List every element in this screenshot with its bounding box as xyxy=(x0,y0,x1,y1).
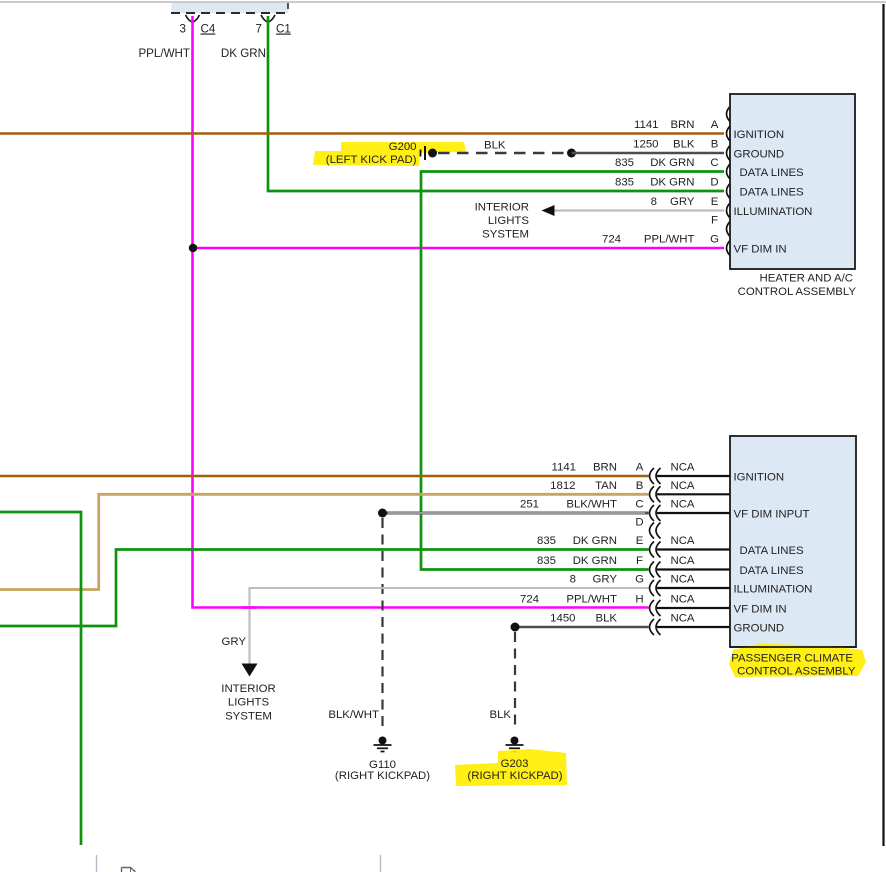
svg-text:DATA LINES: DATA LINES xyxy=(740,187,805,199)
svg-text:C: C xyxy=(710,157,718,169)
svg-text:(RIGHT KICKPAD): (RIGHT KICKPAD) xyxy=(467,770,562,782)
svg-text:VF DIM IN: VF DIM IN xyxy=(734,244,787,256)
svg-text:DK GRN: DK GRN xyxy=(650,177,694,189)
svg-text:BLK: BLK xyxy=(673,139,695,151)
svg-text:IGNITION: IGNITION xyxy=(734,472,785,484)
wire 835 DK GRN entering left and exiting bottom xyxy=(0,512,81,845)
bottom panel document icon (cut off) xyxy=(122,868,136,872)
svg-text:BRN: BRN xyxy=(593,462,617,474)
svg-text:BLK: BLK xyxy=(484,140,506,152)
svg-text:LIGHTS: LIGHTS xyxy=(228,697,270,709)
svg-text:1141: 1141 xyxy=(634,119,659,131)
wire 1141 BRN to heater pin A xyxy=(0,132,724,135)
svg-text:835: 835 xyxy=(615,177,634,189)
svg-text:7: 7 xyxy=(256,23,262,36)
svg-text:A: A xyxy=(636,462,644,474)
svg-text:PASSENGER CLIMATE: PASSENGER CLIMATE xyxy=(731,653,853,665)
svg-text:NCA: NCA xyxy=(670,499,694,511)
svg-text:724: 724 xyxy=(520,594,539,606)
svg-text:NCA: NCA xyxy=(670,574,694,586)
svg-text:NCA: NCA xyxy=(670,594,694,606)
svg-text:BLK/WHT: BLK/WHT xyxy=(328,709,379,721)
bottom panel cell divider right xyxy=(380,855,382,872)
wire 1812 TAN to passenger pin B xyxy=(0,494,649,589)
svg-text:PPL/WHT: PPL/WHT xyxy=(644,234,695,246)
svg-text:(LEFT KICK PAD): (LEFT KICK PAD) xyxy=(326,154,417,166)
svg-text:H: H xyxy=(635,594,643,606)
wire 1250 BLK to heater pin B xyxy=(572,152,725,155)
svg-text:DATA LINES: DATA LINES xyxy=(740,545,805,557)
svg-text:IGNITION: IGNITION xyxy=(734,129,785,141)
svg-text:1250: 1250 xyxy=(633,139,658,151)
svg-text:724: 724 xyxy=(602,234,621,246)
svg-text:PPL/WHT: PPL/WHT xyxy=(566,594,617,606)
arrow to interior lights system (left) xyxy=(542,205,555,216)
svg-text:GRY: GRY xyxy=(222,636,247,648)
svg-text:CONTROL ASSEMBLY: CONTROL ASSEMBLY xyxy=(738,286,857,298)
bottom panel cell divider left xyxy=(96,855,98,872)
pin terminal 3 (C4) xyxy=(186,15,200,22)
wire BLK dashed down to G203 xyxy=(514,632,516,729)
svg-text:INTERIOR: INTERIOR xyxy=(221,683,275,695)
svg-text:SYSTEM: SYSTEM xyxy=(225,711,272,723)
svg-text:GROUND: GROUND xyxy=(734,623,785,635)
svg-text:HEATER AND A/C: HEATER AND A/C xyxy=(760,273,853,285)
svg-text:C4: C4 xyxy=(201,23,216,36)
passenger climate control assembly box xyxy=(730,436,856,647)
svg-text:A: A xyxy=(711,119,719,131)
ground G110 symbol xyxy=(374,737,392,752)
svg-text:E: E xyxy=(711,196,719,208)
ground symbol G200 (chassis) xyxy=(421,146,438,160)
NCA labels xyxy=(670,462,694,625)
svg-text:F: F xyxy=(636,555,643,567)
wire 835 DK GRN from C1 pin 7 down to heater pin D xyxy=(268,16,724,191)
wire 1141 BRN to passenger pin A xyxy=(0,475,649,478)
svg-text:D: D xyxy=(710,177,718,189)
page right border xyxy=(882,4,884,846)
svg-text:(RIGHT KICKPAD): (RIGHT KICKPAD) xyxy=(335,770,430,782)
pin terminal 7 (C1) xyxy=(261,15,275,22)
svg-text:DK GRN: DK GRN xyxy=(573,535,617,547)
svg-text:DATA LINES: DATA LINES xyxy=(740,167,805,179)
box bottom border over highlight xyxy=(730,646,856,648)
svg-text:1450: 1450 xyxy=(550,613,575,625)
svg-text:NCA: NCA xyxy=(670,535,694,547)
svg-text:835: 835 xyxy=(537,555,556,567)
svg-text:NCA: NCA xyxy=(670,555,694,567)
svg-text:B: B xyxy=(636,480,644,492)
highlight G203 xyxy=(455,749,567,786)
junction node on 1450 BLK xyxy=(511,623,520,632)
svg-text:VF DIM IN: VF DIM IN xyxy=(734,604,787,616)
wire 1450 BLK to passenger ground pin xyxy=(515,626,649,629)
svg-text:BRN: BRN xyxy=(670,119,694,131)
svg-text:SYSTEM: SYSTEM xyxy=(482,229,529,241)
svg-text:GRY: GRY xyxy=(593,574,618,586)
svg-text:G: G xyxy=(635,574,644,586)
svg-text:PPL/WHT: PPL/WHT xyxy=(138,47,190,60)
NCA stub lines xyxy=(657,476,730,627)
junction node on PPL/WHT wire xyxy=(189,244,197,252)
svg-text:E: E xyxy=(636,535,644,547)
junction node on 251 BLK/WHT xyxy=(378,509,387,518)
splice node on 1250 BLK xyxy=(567,149,576,158)
svg-text:LIGHTS: LIGHTS xyxy=(488,215,530,227)
svg-text:G200: G200 xyxy=(389,141,417,153)
wire BLK dashed from G200 to splice xyxy=(438,152,566,154)
svg-text:DK GRN: DK GRN xyxy=(573,555,617,567)
svg-text:GROUND: GROUND xyxy=(734,149,785,161)
passenger connector pin arcs (double) with NCA stubs xyxy=(650,468,661,635)
svg-text:8: 8 xyxy=(570,574,576,586)
svg-text:ILLUMINATION: ILLUMINATION xyxy=(734,206,813,218)
svg-text:835: 835 xyxy=(537,535,556,547)
svg-text:BLK: BLK xyxy=(489,709,511,721)
wire 8 GRY to heater pin E xyxy=(553,209,724,211)
ground G203 symbol xyxy=(506,737,524,752)
heater connector pin arcs xyxy=(727,106,732,257)
svg-text:GRY: GRY xyxy=(670,196,695,208)
highlight passenger climate caption xyxy=(729,644,866,678)
svg-text:NCA: NCA xyxy=(670,613,694,625)
wire 251 BLK/WHT to passenger pin C xyxy=(383,512,649,515)
svg-text:NCA: NCA xyxy=(670,480,694,492)
wire 8 GRY to passenger pin G and down to arrow xyxy=(250,588,649,664)
wire BLK/WHT dashed down to G110 xyxy=(381,518,383,729)
svg-text:835: 835 xyxy=(615,157,634,169)
svg-text:B: B xyxy=(711,139,719,151)
svg-text:DK GRN: DK GRN xyxy=(650,157,694,169)
svg-text:1812: 1812 xyxy=(550,480,575,492)
highlight G200 xyxy=(313,142,466,166)
svg-text:INTERIOR: INTERIOR xyxy=(475,202,529,214)
svg-text:BLK: BLK xyxy=(595,613,617,625)
svg-text:CONTROL ASSEMBLY: CONTROL ASSEMBLY xyxy=(737,666,856,678)
svg-text:DK GRN: DK GRN xyxy=(221,47,266,60)
svg-text:VF DIM INPUT: VF DIM INPUT xyxy=(734,509,810,521)
heater and A/C control assembly box xyxy=(730,94,855,269)
wire 724 PPL/WHT over crossing xyxy=(242,606,257,609)
wire 724 PPL/WHT branch to heater pin G xyxy=(193,247,725,250)
svg-text:ILLUMINATION: ILLUMINATION xyxy=(734,584,813,596)
svg-text:C1: C1 xyxy=(276,23,291,36)
page top edge line xyxy=(0,1,886,3)
wire 724 PPL/WHT vertical from C4 pin 3 down and right to pin H xyxy=(193,16,649,608)
svg-text:BLK/WHT: BLK/WHT xyxy=(566,499,617,511)
svg-text:3: 3 xyxy=(180,23,186,36)
svg-text:NCA: NCA xyxy=(670,462,694,474)
svg-text:D: D xyxy=(635,517,643,529)
svg-text:TAN: TAN xyxy=(595,480,617,492)
arrow to interior lights system (down) xyxy=(242,664,258,677)
svg-text:F: F xyxy=(711,215,718,227)
svg-text:1141: 1141 xyxy=(552,462,577,474)
connector C200 box (cut off at top) xyxy=(171,3,289,13)
svg-text:G: G xyxy=(710,234,719,246)
svg-text:C: C xyxy=(635,499,643,511)
wire 835 DK GRN to passenger pin E xyxy=(0,550,649,627)
svg-text:DATA LINES: DATA LINES xyxy=(740,565,805,577)
svg-text:251: 251 xyxy=(520,499,539,511)
svg-text:8: 8 xyxy=(651,196,657,208)
wire 835 DK GRN heater pin C down to passenger pin F xyxy=(421,172,724,570)
svg-text:G203: G203 xyxy=(501,758,529,770)
